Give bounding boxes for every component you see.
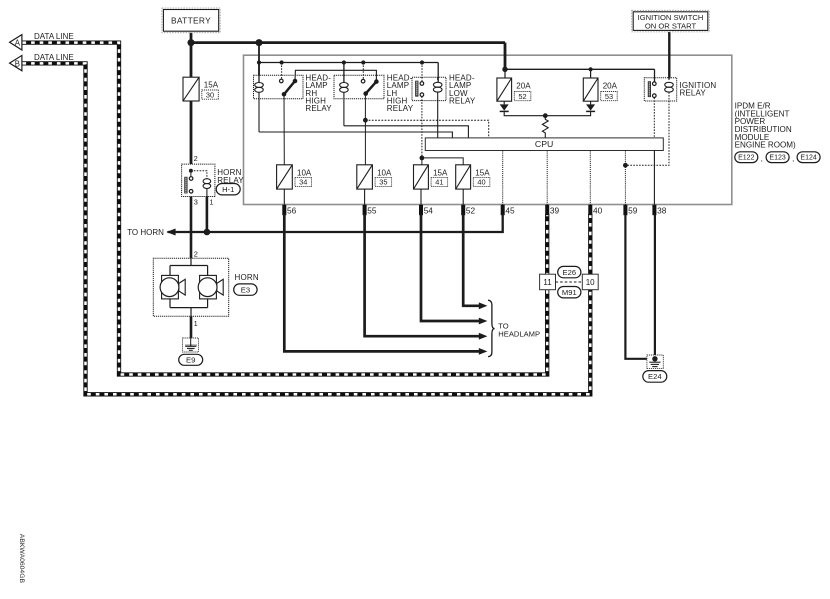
wire to fuse 52 <box>504 69 506 78</box>
wire CPU to pin 40 <box>589 151 591 205</box>
wire RH contact to bus <box>281 63 283 80</box>
connector pin 11 <box>540 274 556 290</box>
node diode join <box>543 113 548 118</box>
horn box E3 <box>153 258 228 316</box>
svg-text:,: , <box>761 154 763 163</box>
wire horn relay pin3 to horn <box>190 197 193 259</box>
wire pin 56 to headlamp <box>284 214 479 351</box>
wire pin 54 to headlamp <box>421 214 479 321</box>
svg-text:2: 2 <box>194 250 198 259</box>
wire internal to coil <box>191 171 207 179</box>
svg-text:,: , <box>792 154 794 163</box>
wire relay supply bus <box>259 62 438 64</box>
CPU box <box>425 138 663 151</box>
wire battery to fuse 30 <box>190 31 193 77</box>
svg-text:15A: 15A <box>204 81 219 90</box>
connector H-1 <box>216 184 240 195</box>
ignition switch <box>632 10 710 32</box>
connector pin 10 <box>582 274 598 290</box>
svg-text:TO HORN: TO HORN <box>127 228 164 237</box>
svg-text:20A: 20A <box>603 82 618 91</box>
label box 52 <box>514 92 531 101</box>
arrow to headlamp 3 <box>479 333 488 340</box>
armature bar horn relay <box>185 177 187 193</box>
coil LH high relay <box>340 83 349 93</box>
wire connector link <box>556 281 583 283</box>
svg-text:1: 1 <box>194 319 198 328</box>
contact ignition relay lower <box>653 94 657 98</box>
contact LH fixed <box>361 79 365 83</box>
svg-text:CPU: CPU <box>535 139 553 149</box>
wire pin 52 to headlamp <box>463 214 479 306</box>
brace TO HEADLAMP <box>488 300 495 356</box>
wire RH-LH blade bridge <box>295 70 376 81</box>
label box 40 <box>473 177 490 186</box>
svg-text:10: 10 <box>586 278 595 287</box>
coil horn relay <box>203 179 211 189</box>
svg-text:E24: E24 <box>648 372 662 381</box>
arrow to headlamp 2 <box>479 318 488 325</box>
wire pin 59 to ground <box>625 215 652 359</box>
node LH blade sense <box>363 118 368 123</box>
connector triangle A <box>10 35 22 50</box>
diode D53 cathode bar <box>586 110 595 112</box>
node horn relay pin1 junction <box>204 229 211 236</box>
connector E123 <box>766 152 789 163</box>
wire ignition switch to relay coil <box>668 30 670 78</box>
horn unit left <box>160 275 185 299</box>
node bus-battery <box>257 60 261 64</box>
contact ignition relay upper <box>653 82 657 86</box>
svg-text:52: 52 <box>518 92 526 101</box>
label box 35 <box>375 177 392 186</box>
arrow to headlamp 4 <box>479 348 488 355</box>
wire CPU to pin 38 <box>653 151 655 205</box>
ground E9 <box>183 338 199 352</box>
wire CPU to pin 59 <box>624 151 626 205</box>
pin 54 <box>419 205 423 216</box>
fuse 10A 34 <box>277 165 293 189</box>
wire LH coil return <box>343 92 345 126</box>
svg-text:3: 3 <box>194 197 198 206</box>
connector E3 <box>234 284 257 295</box>
node bus low relay <box>420 60 424 64</box>
svg-text:RELAY: RELAY <box>305 104 332 113</box>
label box 30 <box>202 90 219 99</box>
coil low relay <box>433 82 442 92</box>
wire battery drop to 20A fuses <box>504 43 507 70</box>
pin 38 <box>652 205 656 216</box>
contact horn relay lower <box>189 190 193 194</box>
svg-text:30: 30 <box>206 90 214 99</box>
fuse 15A 30 <box>183 77 199 101</box>
wire to RH coil <box>258 63 260 83</box>
svg-text:2: 2 <box>194 154 198 163</box>
wire fuse 34 to pin 56 <box>283 189 285 204</box>
relay box horn relay <box>182 164 215 196</box>
wire horn relay pin1 down <box>206 197 209 233</box>
coil RH high relay <box>255 83 264 93</box>
svg-text:A: A <box>15 39 21 48</box>
resistor to CPU <box>542 116 548 138</box>
wire CPU to pin 39 <box>546 151 548 205</box>
node bus LH coil <box>342 60 346 64</box>
blade LH relay <box>366 82 377 94</box>
fuse 20A 53 <box>583 78 598 101</box>
relay box headlamp low relay <box>412 77 446 100</box>
svg-text:40: 40 <box>477 178 485 187</box>
contact low relay upper <box>420 82 424 86</box>
battery <box>162 8 220 33</box>
pin 39 <box>545 205 549 216</box>
wire low relay output <box>421 97 423 158</box>
svg-text:DATA LINE: DATA LINE <box>34 32 74 41</box>
connector E122 <box>735 152 758 163</box>
svg-text:11: 11 <box>543 278 552 287</box>
svg-text:E9: E9 <box>186 356 195 365</box>
node ignition coil return <box>623 163 628 168</box>
svg-text:20A: 20A <box>516 82 531 91</box>
wire bus to low relay coil <box>437 63 439 83</box>
svg-text:RELAY: RELAY <box>387 104 414 113</box>
svg-text:E124: E124 <box>800 155 816 162</box>
fuse 15A 40 <box>456 165 471 189</box>
wire diode 53 to node <box>545 111 590 115</box>
svg-text:B: B <box>15 59 20 68</box>
svg-text:56: 56 <box>287 205 297 215</box>
wire battery to ignition relay contact <box>654 69 656 82</box>
wire RH coil return <box>258 92 260 132</box>
wire fuse 40 to pin 52 <box>462 189 464 204</box>
wire data line A (triangle A to IPDM pin 39) <box>23 43 548 375</box>
wire horn join <box>170 307 208 309</box>
wire LH coil to CPU <box>344 126 469 138</box>
svg-text:53: 53 <box>605 92 613 101</box>
wire ignition coil return <box>625 92 669 165</box>
pin 45 <box>501 205 505 216</box>
relay box headlamp RH high relay <box>254 75 304 99</box>
relay box headlamp LH high relay <box>334 75 384 99</box>
svg-text:54: 54 <box>424 205 434 215</box>
svg-text:ENGINE ROOM): ENGINE ROOM) <box>735 141 796 150</box>
wire pin 38 to ground <box>654 215 656 357</box>
svg-text:HEADLAMP: HEADLAMP <box>498 330 540 339</box>
connector triangle B <box>10 55 22 70</box>
svg-text:HORN: HORN <box>235 273 259 282</box>
wire to LH coil <box>343 63 345 83</box>
pin 55 <box>363 205 367 216</box>
label box 41 <box>431 177 448 186</box>
connector M91 <box>558 287 581 298</box>
wire feed to fuse 40 <box>422 158 463 165</box>
svg-text:45: 45 <box>505 205 515 215</box>
svg-text:40: 40 <box>593 205 603 215</box>
svg-text:H-1: H-1 <box>222 185 234 194</box>
label box 34 <box>295 177 312 186</box>
connector E24 <box>643 371 667 383</box>
pin 52 <box>461 205 465 216</box>
arrow TO HORN <box>166 229 175 236</box>
wire 20A fuse feed <box>505 68 655 70</box>
node 20A feed <box>502 67 507 72</box>
node bus RH contact <box>280 60 284 64</box>
svg-text:1: 1 <box>209 197 213 206</box>
wire fuse 35 to pin 55 <box>364 189 366 204</box>
node bus LH contact <box>361 60 365 64</box>
wire LH contact to bus <box>362 63 364 80</box>
svg-text:ON OR START: ON OR START <box>645 21 697 30</box>
svg-text:DATA LINE: DATA LINE <box>34 53 74 62</box>
connector E26 <box>558 266 581 277</box>
contact horn relay upper <box>189 177 193 181</box>
pin 40 <box>588 205 592 216</box>
diode D52 <box>500 104 509 110</box>
pin 59 <box>623 205 627 216</box>
wire low relay contact to bus <box>421 63 423 82</box>
svg-text:M91: M91 <box>562 288 577 297</box>
pin 56 <box>282 205 286 216</box>
svg-text:E26: E26 <box>563 268 577 277</box>
svg-text:39: 39 <box>550 205 560 215</box>
wire LH blade to fuse 35 <box>364 94 366 165</box>
connector E124 <box>797 152 820 163</box>
blade RH relay <box>284 81 295 94</box>
wire RH coil to CPU <box>259 132 452 138</box>
svg-text:10A: 10A <box>297 168 312 177</box>
svg-text:59: 59 <box>628 205 638 215</box>
node battery junction <box>188 39 195 46</box>
wire feed to fuse 41 <box>421 158 423 165</box>
svg-text:RELAY: RELAY <box>449 97 476 106</box>
armature bar ignition relay <box>648 82 650 97</box>
wire to fuse 53 <box>590 69 592 78</box>
svg-text:38: 38 <box>657 205 667 215</box>
contact low relay lower <box>420 93 424 97</box>
relay box ignition relay <box>644 78 676 101</box>
horn unit right <box>198 275 223 299</box>
wire horn split <box>170 265 208 267</box>
svg-text:ABKWA0604GB: ABKWA0604GB <box>18 534 25 584</box>
wire fuse 41 to pin 54 <box>420 189 422 204</box>
wire low relay coil to CPU <box>437 92 439 138</box>
connector E9 <box>179 354 203 365</box>
wire RH blade to fuse 34 <box>283 94 285 165</box>
fuse 10A 35 <box>357 165 373 189</box>
node low beam feed <box>420 156 425 161</box>
svg-text:35: 35 <box>379 178 387 187</box>
node horn relay internal <box>189 169 193 173</box>
wire data line B (triangle B to IPDM pin 40) <box>23 63 591 394</box>
contact RH fixed <box>280 79 284 83</box>
arrow to headlamp 1 <box>479 302 488 309</box>
svg-text:15A: 15A <box>475 168 490 177</box>
svg-text:E123: E123 <box>769 155 785 162</box>
ground E24 <box>647 355 663 368</box>
wire horn to ground E9 <box>190 316 193 341</box>
wire battery feed horizontal <box>191 41 505 44</box>
fuse 15A 41 <box>414 165 429 189</box>
svg-text:E122: E122 <box>738 155 754 162</box>
armature bar low relay <box>416 81 418 96</box>
svg-text:15A: 15A <box>433 168 448 177</box>
svg-text:BATTERY: BATTERY <box>171 16 211 26</box>
svg-text:10A: 10A <box>377 168 392 177</box>
wire fuse 30 to horn relay <box>190 101 193 164</box>
diode D53 <box>586 104 595 110</box>
wire TO HORN / pin 45 <box>168 214 503 232</box>
label box 53 <box>601 92 618 101</box>
svg-text:55: 55 <box>367 205 377 215</box>
wire CPU to pin 45 <box>502 151 504 205</box>
svg-text:RELAY: RELAY <box>680 89 707 98</box>
svg-text:41: 41 <box>435 178 443 187</box>
wire pin 55 to headlamp <box>365 214 479 336</box>
diode D52 cathode bar <box>500 110 509 112</box>
wire high beam sense to CPU <box>365 120 488 138</box>
svg-text:52: 52 <box>466 205 476 215</box>
wire diode 52 to node <box>504 111 545 115</box>
svg-text:34: 34 <box>299 178 307 187</box>
wire drop to IPDM relay bus <box>258 43 260 76</box>
svg-text:E3: E3 <box>241 285 250 294</box>
node fuse 53 tap <box>589 67 593 71</box>
wire ignition relay output to CPU <box>653 98 655 138</box>
IPDM E/R box <box>244 55 732 204</box>
node feed junction <box>256 39 263 46</box>
fuse 20A 52 <box>497 78 512 101</box>
coil ignition relay <box>665 82 674 92</box>
